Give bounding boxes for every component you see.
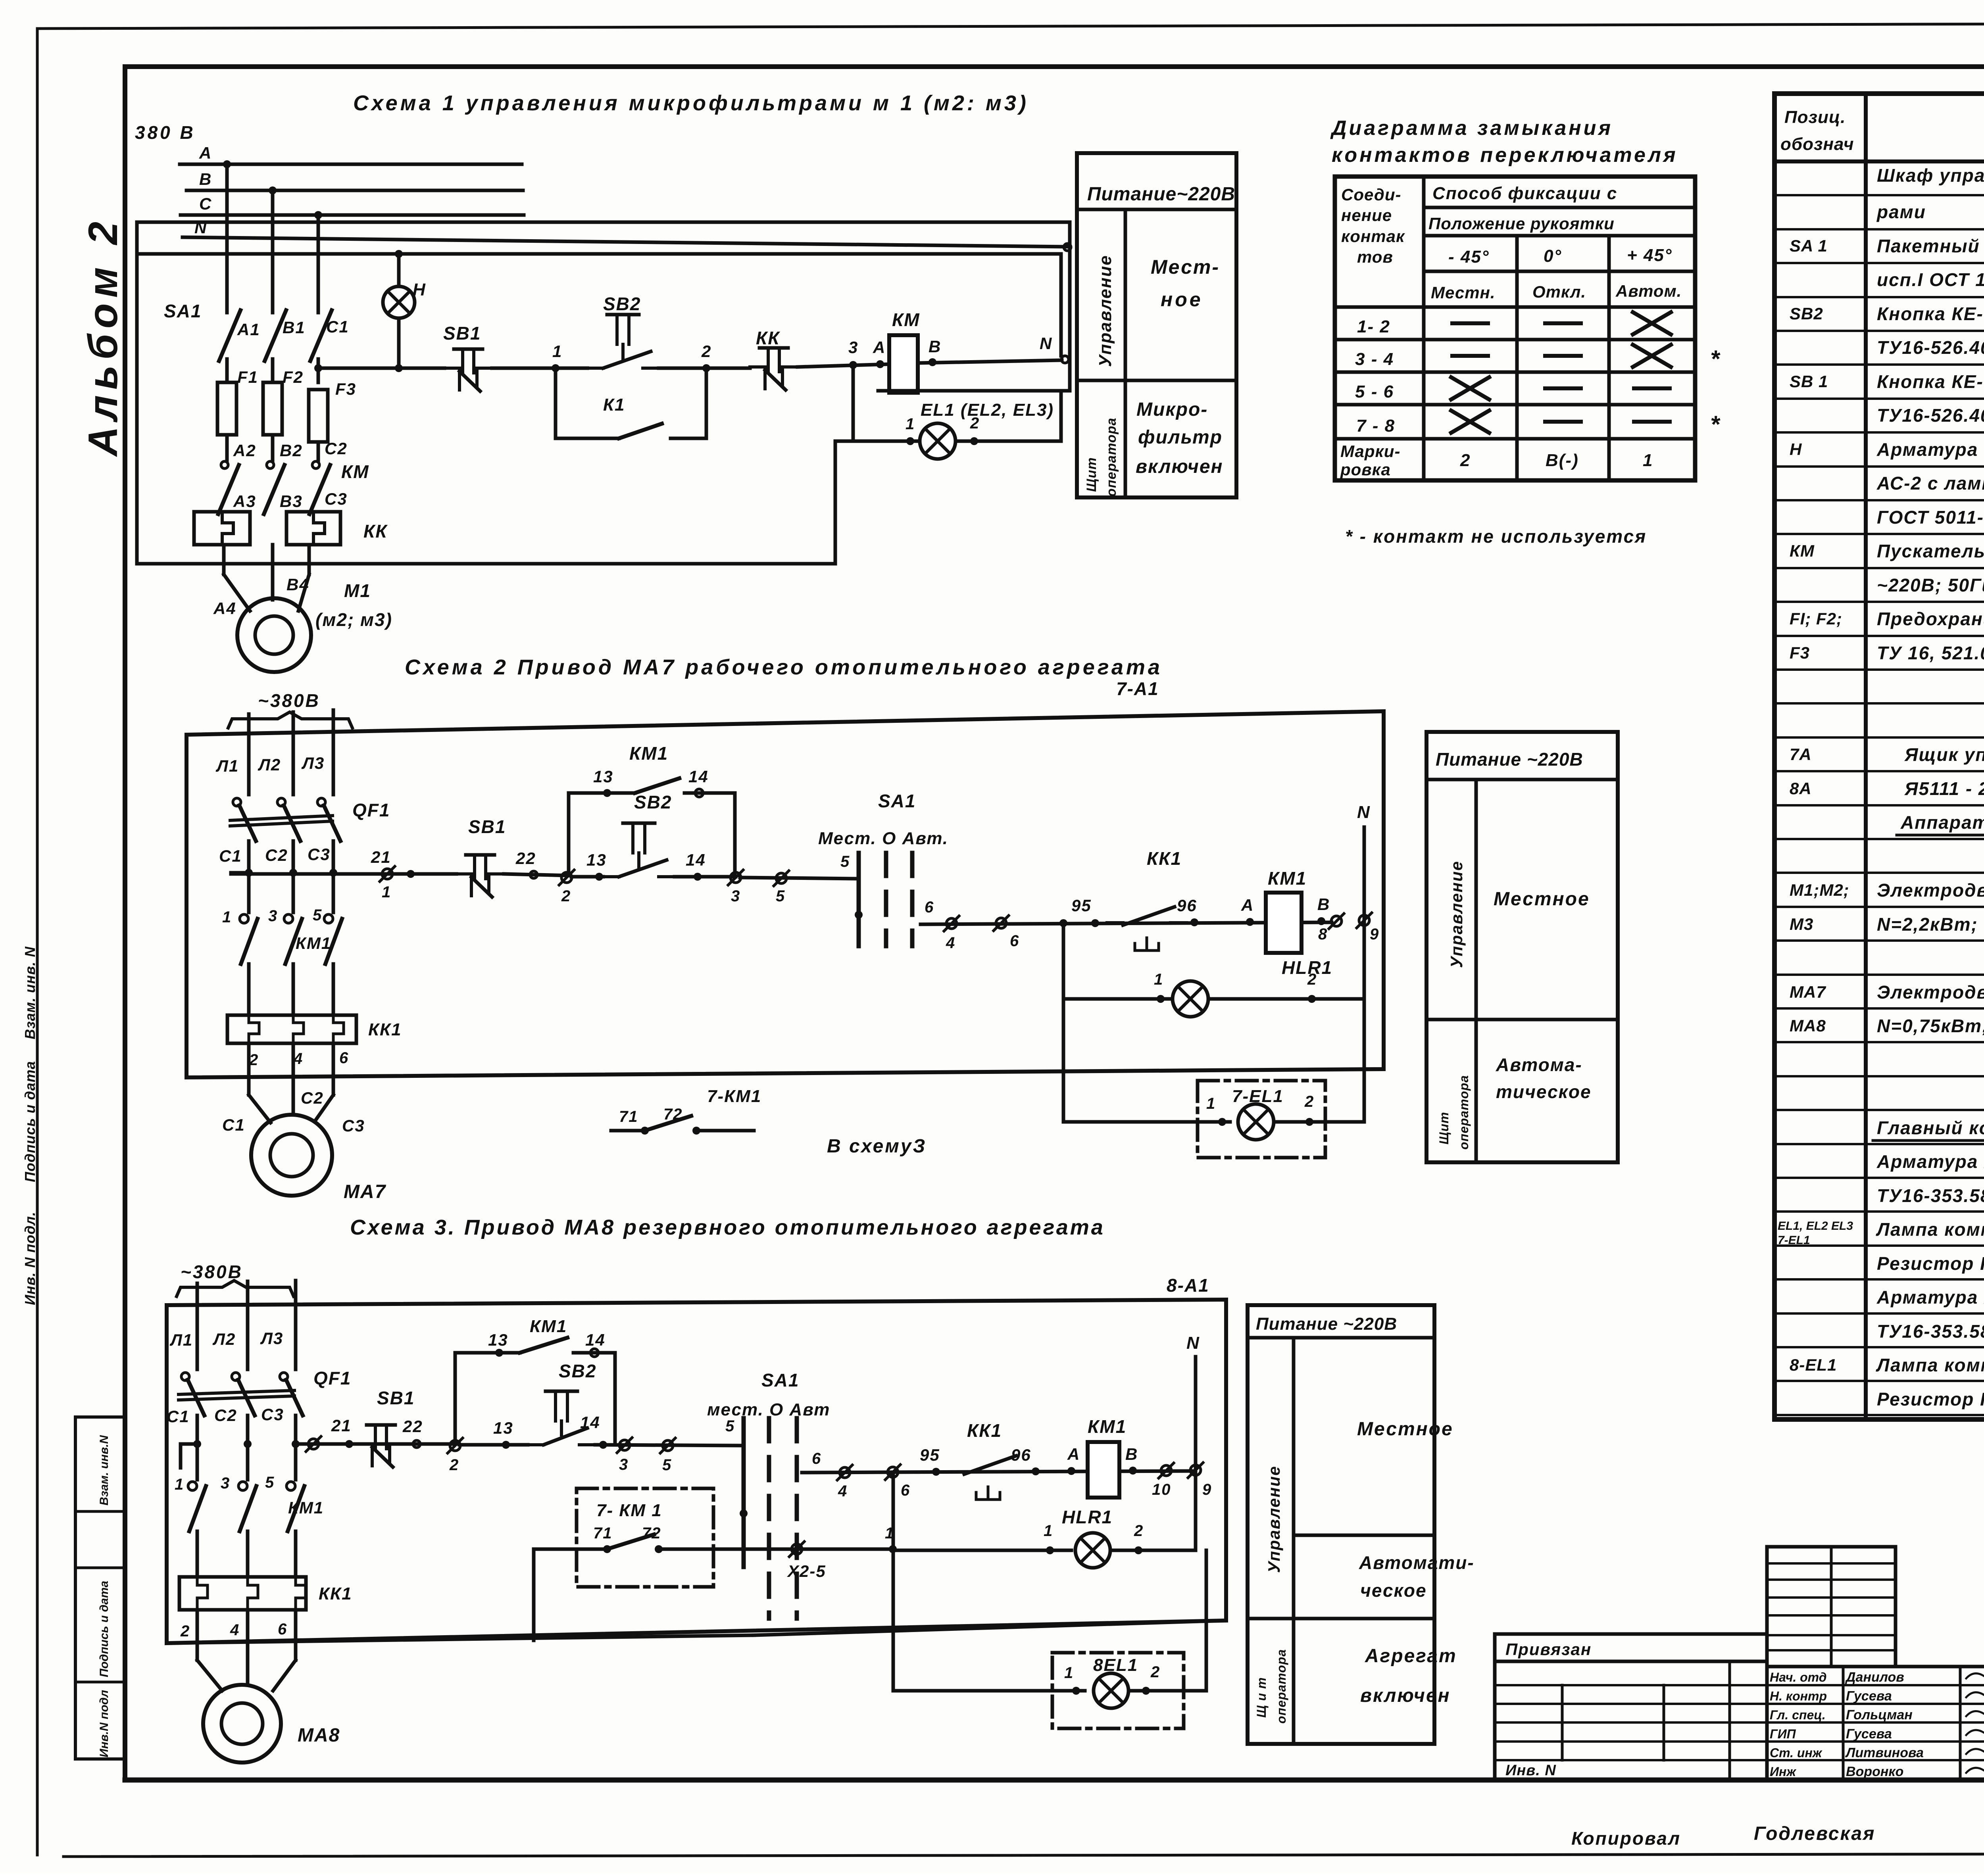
sheet bottom edge — [63, 1853, 1984, 1857]
svg-text:Электродвигатель 4АХ71А2: Электродвигатель 4АХ71А2 — [1877, 982, 1984, 1002]
svg-text:В3: В3 — [280, 492, 303, 511]
wire K1 branch left — [554, 368, 558, 438]
wire EL down to return — [834, 441, 837, 564]
wire qf to row s2 — [247, 841, 251, 873]
svg-text:Автом.: Автом. — [1615, 282, 1682, 300]
wire L3 stub — [332, 710, 335, 795]
wire motor tap3 diag s2 — [315, 1095, 333, 1121]
signature table — [1767, 1667, 1984, 1780]
svg-text:М3: М3 — [1790, 915, 1813, 933]
motor MA7 — [251, 1115, 332, 1196]
stamp divider 3 — [75, 1681, 125, 1684]
svg-text:4: 4 — [230, 1621, 240, 1639]
wire to SA1 s2 — [740, 878, 859, 879]
svg-text:7-КМ1: 7-КМ1 — [707, 1087, 761, 1106]
svg-text:А4: А4 — [213, 599, 236, 618]
svg-text:N: N — [1040, 334, 1052, 353]
frame left — [123, 67, 127, 1780]
svg-text:Ящик управления: Ящик управления — [1904, 744, 1984, 765]
svg-text:7-А1: 7-А1 — [1116, 678, 1159, 699]
svg-text:N: N — [194, 218, 207, 237]
svg-text:1: 1 — [1044, 1522, 1053, 1540]
contact KK1 NC schema3 — [948, 1456, 1028, 1500]
svg-text:ТУ16-353.582-76 В КОМПЛЕКТЕ;: ТУ16-353.582-76 В КОМПЛЕКТЕ; — [1877, 1185, 1984, 1206]
svg-text:МА8: МА8 — [1790, 1016, 1826, 1035]
node 95 s3 — [932, 1468, 940, 1476]
wire H lamp upper — [397, 254, 401, 286]
svg-text:2: 2 — [1460, 451, 1471, 470]
wire motor tap1 diag s3 — [197, 1660, 222, 1691]
svg-text:Аппаратура по месту: Аппаратура по месту — [1900, 812, 1984, 833]
indicator 7-EL1 dashed box schema2 — [1198, 1081, 1325, 1158]
wire col to contact s3 — [246, 1444, 250, 1480]
power table schema2 — [1426, 732, 1618, 1162]
wire L1 stub — [247, 714, 251, 795]
svg-text:КМ: КМ — [1790, 541, 1815, 560]
svg-text:МА7: МА7 — [1790, 983, 1826, 1001]
selector SA1 schema2 — [857, 853, 861, 946]
wire phase col 1 to fuse — [225, 359, 229, 382]
node 1 auto s3 — [889, 1545, 897, 1553]
contact K1 blade — [619, 424, 662, 438]
svg-text:В2: В2 — [280, 441, 303, 460]
svg-text:1: 1 — [552, 342, 562, 361]
svg-text:Литвинова: Литвинова — [1845, 1745, 1924, 1760]
svg-text:5: 5 — [313, 906, 322, 924]
bus C — [181, 213, 524, 217]
wire K1 branch bottom-right — [671, 437, 706, 440]
svg-text:КМ1: КМ1 — [530, 1317, 567, 1336]
node B s2 — [1317, 917, 1325, 925]
svg-text:Л1: Л1 — [215, 757, 239, 775]
svg-text:0°: 0° — [1544, 246, 1562, 266]
svg-text:С3: С3 — [325, 490, 348, 508]
left table div3 — [1728, 1661, 1731, 1780]
wire motor tap1 s3 — [196, 1610, 199, 1660]
wire bypass right s3 — [613, 1353, 617, 1445]
svg-text:КК1: КК1 — [1147, 848, 1182, 869]
svg-text:SB1: SB1 — [443, 323, 481, 344]
node bus junction 1 — [223, 160, 231, 168]
wire K1 branch right — [705, 368, 708, 438]
wire control row seg3 — [659, 367, 750, 370]
breaker QF1 bar line2 — [230, 821, 333, 826]
svg-text:2: 2 — [701, 342, 711, 361]
svg-text:SA1: SA1 — [761, 1370, 799, 1390]
node A s2 — [1246, 918, 1254, 926]
wire motor tap1 diag s2 — [249, 1095, 271, 1123]
svg-text:8: 8 — [1318, 926, 1328, 943]
svg-text:1: 1 — [175, 1476, 184, 1493]
svg-text:Местное: Местное — [1357, 1419, 1453, 1440]
svg-text:нение: нение — [1341, 206, 1392, 225]
svg-text:Мест-: Мест- — [1151, 256, 1220, 278]
wire HLR drop s3 — [892, 1472, 895, 1691]
svg-text:* - контакт не используетс: * - контакт не используется — [1345, 526, 1647, 547]
svg-text:КМ1: КМ1 — [296, 934, 331, 952]
wire col to contact s3 — [196, 1444, 199, 1480]
svg-text:5: 5 — [662, 1456, 672, 1474]
wire HLR row left s2 — [1063, 997, 1171, 1001]
terminal 22 s3 — [413, 1440, 420, 1448]
node 3 slashed s2 — [728, 870, 743, 885]
wire motor tap2 s3 — [246, 1610, 250, 1685]
svg-text:обознач: обознач — [1780, 134, 1854, 154]
svg-text:7- КМ 1: 7- КМ 1 — [596, 1501, 662, 1520]
wire EL row right — [955, 440, 1061, 443]
svg-text:Л3: Л3 — [301, 754, 325, 772]
svg-text:14: 14 — [688, 767, 709, 786]
node 2 slashed s2 — [559, 870, 574, 885]
node row cross s3 — [193, 1440, 201, 1448]
wire control row seg2 — [492, 367, 587, 370]
svg-text:КК: КК — [756, 328, 780, 348]
lamp EL1 — [920, 423, 955, 459]
svg-text:Н. контр: Н. контр — [1770, 1689, 1827, 1703]
node row cross s3 — [292, 1440, 300, 1448]
svg-text:~380В: ~380В — [181, 1262, 243, 1282]
svg-text:14: 14 — [686, 851, 706, 869]
svg-text:рами: рами — [1876, 202, 1926, 222]
svg-text:КК: КК — [363, 521, 388, 541]
wire ctrl row s2 seg2 — [504, 874, 569, 876]
svg-text:исп.I ОСТ 16. 0526. 001-77: исп.I ОСТ 16. 0526. 001-77 — [1877, 269, 1984, 290]
svg-text:2: 2 — [1134, 1522, 1144, 1540]
wire box down to return s3 — [532, 1549, 536, 1640]
wire bypass right down s2 — [733, 793, 737, 877]
wire s3 seg3 — [595, 1445, 744, 1446]
svg-text:ТУ16-353.582-76 В КОМПЛЕКТЕ;: ТУ16-353.582-76 В КОМПЛЕКТЕ; — [1877, 1321, 1984, 1342]
svg-text:Пакетный выключатель АВ3-10: Пакетный выключатель АВ3-10 — [1877, 236, 1984, 256]
svg-text:ное: ное — [1161, 288, 1203, 311]
wire EL row s2 left — [1063, 1120, 1230, 1124]
wire s3 seg1 — [405, 1442, 455, 1446]
svg-text:Л2: Л2 — [258, 755, 281, 774]
lamp HLR1 schema3 — [1075, 1533, 1110, 1568]
terminal 14 aux s2 — [695, 789, 703, 797]
svg-text:В схемуЗ: В схемуЗ — [827, 1136, 927, 1157]
contact 7-KM1 aux (to schema 3) — [611, 1129, 645, 1133]
wire HLR row s3 left — [893, 1549, 1071, 1552]
contactor KM main blade — [310, 465, 330, 514]
svg-text:Соеди-: Соеди- — [1341, 185, 1401, 204]
sheet left edge — [36, 30, 39, 1855]
stamp divider 2 — [75, 1567, 125, 1569]
svg-text:А: А — [1067, 1445, 1080, 1463]
svg-text:ТУ16-526.407-76Е: ТУ16-526.407-76Е — [1877, 337, 1984, 358]
svg-text:380 В: 380 В — [135, 122, 196, 143]
svg-text:М1: М1 — [344, 580, 371, 601]
wire qf to row s3 — [246, 1415, 250, 1444]
node X2-5 s3 — [789, 1542, 804, 1557]
svg-text:Питание ~220В: Питание ~220В — [1436, 749, 1583, 770]
node A dot schema1 — [876, 360, 884, 368]
node 5 slashed s3 — [660, 1438, 675, 1453]
specification table — [1774, 94, 1984, 1419]
wire motor tap A — [222, 545, 226, 574]
node 1 slashed s2 — [380, 866, 395, 881]
wire below F2 — [271, 435, 275, 460]
wire N feeder — [137, 252, 1061, 256]
svg-text:Местное: Местное — [1494, 889, 1590, 910]
svg-text:Резистор ПЭВ-25: Резистор ПЭВ-25 — [1877, 1389, 1984, 1409]
svg-text:SB2: SB2 — [559, 1361, 596, 1381]
enclosure box 7-A1 — [186, 711, 1384, 1077]
button SB2 schema2 — [603, 823, 675, 877]
wire motor tap3 s2 — [332, 1043, 335, 1095]
svg-text:7А: 7А — [1790, 745, 1812, 764]
motor M1 — [237, 598, 311, 672]
svg-text:72: 72 — [663, 1106, 683, 1123]
lamp 7-EL1 schema2 — [1238, 1104, 1274, 1140]
contactor coil KM — [889, 335, 918, 393]
svg-text:КМ1: КМ1 — [1268, 868, 1307, 889]
svg-text:(м2; м3): (м2; м3) — [315, 609, 392, 630]
sheet top edge — [37, 23, 1984, 29]
wire into box s3 — [534, 1548, 577, 1551]
wire EL up right — [1059, 391, 1063, 441]
wire H lamp lower — [397, 318, 401, 368]
stamp divider 1 — [75, 1510, 125, 1513]
wire phase col 3 upper — [317, 215, 320, 313]
svg-text:ческое: ческое — [1360, 1580, 1427, 1601]
contact closure diagram table — [1330, 117, 1721, 547]
svg-text:HLR1: HLR1 — [1282, 957, 1332, 978]
fuse F3 — [309, 390, 328, 442]
svg-text:тов: тов — [1357, 248, 1393, 266]
contact KK1 NC schema2 — [1107, 907, 1186, 950]
svg-text:ГИП: ГИП — [1770, 1727, 1796, 1741]
svg-text:2: 2 — [561, 887, 571, 905]
fuse F2 — [263, 382, 282, 435]
node 3 slashed s3 — [617, 1438, 632, 1453]
svg-text:АС-2 с лампой ПШ-220-15: АС-2 с лампой ПШ-220-15 — [1876, 473, 1984, 493]
svg-text:Л1: Л1 — [169, 1331, 193, 1349]
wire HLR row right s2 — [1208, 997, 1364, 1001]
svg-text:Годлевская: Годлевская — [1754, 1823, 1875, 1844]
node 9 slashed s3 — [1188, 1463, 1203, 1478]
svg-text:1: 1 — [1154, 971, 1163, 988]
svg-text:Подпись и дата: Подпись и дата — [22, 1061, 38, 1182]
wire col down to KM1 contact s2 — [247, 873, 251, 912]
wire phase col 2 upper — [271, 190, 275, 313]
node row cross s3 — [244, 1440, 252, 1448]
wire phase col 2 to fuse — [271, 359, 275, 382]
svg-text:SB 1: SB 1 — [1790, 372, 1828, 391]
svg-text:Инв. N: Инв. N — [1505, 1762, 1556, 1779]
node B dot schema1 — [929, 358, 936, 366]
svg-text:Я5111 - 2474 УХЛ4: Я5111 - 2474 УХЛ4 — [1904, 778, 1984, 799]
svg-text:SA1: SA1 — [164, 301, 202, 321]
svg-text:Откл.: Откл. — [1532, 282, 1586, 301]
svg-text:оператора: оператора — [1104, 418, 1119, 497]
breaker bar1 s3 — [179, 1390, 294, 1394]
svg-text:8А: 8А — [1790, 779, 1812, 798]
node EL 2 s3 — [1142, 1687, 1150, 1695]
wire col down to KM1 contact s2 — [292, 873, 295, 912]
svg-text:Управление: Управление — [1265, 1465, 1283, 1573]
button SB1 schema3 — [357, 1425, 405, 1467]
node HLR 1 s2 — [1157, 995, 1165, 1003]
svg-text:Лампа коммутаторная КМ24-90: Лампа коммутаторная КМ24-90 — [1876, 1219, 1984, 1240]
svg-text:~380В: ~380В — [258, 690, 320, 711]
svg-text:7-EL1: 7-EL1 — [1232, 1087, 1284, 1106]
svg-text:SB2: SB2 — [603, 294, 641, 314]
svg-text:Альбом 2: Альбом 2 — [80, 216, 126, 457]
svg-text:6: 6 — [925, 899, 934, 916]
svg-text:Н: Н — [1790, 440, 1802, 459]
svg-text:Местн.: Местн. — [1431, 283, 1496, 302]
svg-text:Гольцман: Гольцман — [1846, 1707, 1913, 1722]
wire N return bottom — [137, 562, 835, 566]
svg-text:8EL1: 8EL1 — [1093, 1655, 1138, 1675]
svg-text:9: 9 — [1370, 926, 1379, 943]
wire EL row s3 right — [1128, 1689, 1206, 1693]
wire EL right up s3 — [1205, 1550, 1208, 1691]
thermal relay KK heater 1 — [194, 512, 250, 545]
svg-text:SB2: SB2 — [634, 792, 672, 812]
svg-text:А1: А1 — [237, 320, 260, 339]
node 6 slashed s3 — [885, 1465, 900, 1480]
node row crossing s2 — [329, 869, 337, 877]
svg-text:КМ: КМ — [341, 461, 369, 482]
svg-text:В: В — [1125, 1445, 1138, 1463]
contact KK NC schema1 — [750, 348, 798, 390]
wire return bottom right s3 — [754, 1621, 1226, 1635]
svg-text:ГОСТ 5011-77: ГОСТ 5011-77 — [1877, 507, 1984, 528]
svg-text:КМ1: КМ1 — [629, 743, 668, 764]
wire motor tap3 s3 — [294, 1610, 298, 1660]
node 21 dot s3 — [345, 1440, 353, 1448]
svg-text:В(-): В(-) — [1546, 451, 1579, 470]
wire below F3 — [317, 442, 320, 460]
wire control row seg1 — [318, 367, 444, 370]
svg-text:Арматура светосигнальная: Арматура светосигнальная — [1876, 439, 1984, 460]
svg-text:10: 10 — [1152, 1481, 1171, 1498]
svg-text:В: В — [1317, 895, 1330, 914]
wire L2 stub — [292, 712, 295, 795]
svg-text:14: 14 — [580, 1413, 600, 1432]
wire EL row s2 right — [1274, 1120, 1364, 1124]
svg-text:включен: включен — [1136, 456, 1223, 477]
svg-text:7-EL1: 7-EL1 — [1778, 1234, 1810, 1247]
svg-text:МА7: МА7 — [344, 1181, 386, 1202]
svg-text:В: В — [929, 337, 941, 356]
breaker QF1 schema2 — [233, 798, 241, 806]
svg-text:71: 71 — [619, 1108, 638, 1125]
node 9 slashed s2 — [1357, 913, 1372, 928]
svg-text:Данилов: Данилов — [1845, 1670, 1904, 1685]
svg-text:F2: F2 — [283, 368, 304, 386]
svg-text:Схема 1 управления микрофи: Схема 1 управления микрофильтрами м 1 (м… — [353, 91, 1029, 115]
svg-text:С1: С1 — [326, 317, 349, 336]
wire after SB2 s2 — [675, 875, 736, 879]
stamp column box — [75, 1417, 125, 1759]
node HLR 2 s3 — [1134, 1546, 1142, 1554]
wire N riser s2 — [1363, 827, 1366, 920]
svg-text:Микро-: Микро- — [1136, 399, 1208, 420]
blade 7-KM1 s3 — [607, 1534, 654, 1549]
svg-text:3: 3 — [848, 338, 858, 357]
svg-text:С3: С3 — [308, 845, 331, 864]
svg-text:Л2: Л2 — [212, 1330, 236, 1348]
wire motor tap C diag — [298, 574, 309, 611]
svg-text:QF1: QF1 — [352, 800, 390, 820]
left table div1 — [1561, 1685, 1564, 1760]
svg-text:3 - 4: 3 - 4 — [1355, 349, 1394, 369]
svg-text:6: 6 — [1010, 932, 1019, 950]
svg-text:Х2-5: Х2-5 — [787, 1562, 826, 1580]
wire motor tap1 s2 — [247, 1043, 251, 1095]
wire EL right up s2 — [1363, 999, 1366, 1122]
svg-text:1: 1 — [1206, 1095, 1216, 1112]
lamp H — [383, 286, 415, 318]
node 96 s3 — [1032, 1467, 1040, 1475]
svg-text:оператора: оператора — [1274, 1649, 1288, 1724]
wire N drop to coil — [1059, 254, 1063, 356]
svg-text:тическое: тическое — [1496, 1081, 1592, 1102]
svg-text:2: 2 — [1304, 1093, 1314, 1110]
svg-text:72: 72 — [642, 1525, 661, 1542]
svg-text:4: 4 — [838, 1482, 848, 1500]
node 21 s2 — [407, 870, 415, 878]
wire motor tap2 s2 — [292, 1043, 295, 1114]
svg-text:5: 5 — [265, 1474, 275, 1491]
wire HLR right up s2 — [1363, 920, 1366, 999]
left empty table — [1495, 1661, 1767, 1780]
thermal relay KK1 heaters schema2 — [227, 1015, 356, 1043]
svg-text:Управление: Управление — [1447, 860, 1466, 968]
svg-text:+ 45°: + 45° — [1627, 246, 1672, 265]
wire N riser s3 — [1194, 1357, 1198, 1470]
bus B — [186, 189, 523, 192]
svg-text:Электродвигатель 4А100L6УЗ: Электродвигатель 4А100L6УЗ — [1877, 880, 1984, 901]
contact KM jaw — [312, 461, 319, 469]
svg-text:3: 3 — [268, 907, 278, 925]
svg-text:1: 1 — [222, 908, 232, 926]
svg-text:2: 2 — [1150, 1663, 1160, 1681]
svg-text:Инж: Инж — [1770, 1765, 1796, 1779]
node 13 row s2 — [595, 873, 603, 881]
svg-text:5: 5 — [776, 887, 785, 905]
node 8 slashed s2 — [1329, 914, 1344, 929]
svg-text:Гусева: Гусева — [1846, 1689, 1892, 1704]
bus A — [180, 163, 522, 166]
wire ctrl row2 s2 — [921, 922, 1332, 924]
svg-text:14: 14 — [585, 1331, 606, 1349]
svg-text:~220В; 50Гц J=6.3А ГОСТ2491-7: ~220В; 50Гц J=6.3А ГОСТ2491-72 — [1877, 575, 1984, 595]
wire EL row s3 left — [893, 1689, 1085, 1693]
svg-text:Резистор ПЭВ-25: Резистор ПЭВ-25 — [1877, 1253, 1984, 1274]
node EL 2 — [970, 437, 978, 445]
brace schema3 — [177, 1281, 294, 1296]
svg-text:Схема 3. Привод МА8 резервно: Схема 3. Привод МА8 резервного отопитель… — [350, 1215, 1105, 1239]
wire 71 stub s3 — [577, 1548, 607, 1551]
contact KM1 aux bypass schema3 — [454, 1353, 457, 1444]
wire row start s3 — [181, 1442, 197, 1446]
wire HLR right connect s3 — [1194, 1470, 1198, 1550]
svg-text:КК1: КК1 — [368, 1020, 402, 1039]
wire ctrl row2 s3 — [802, 1471, 1196, 1473]
svg-text:Инв.N подл: Инв.N подл — [98, 1690, 111, 1757]
node F3 tap — [314, 364, 322, 372]
node 95 s2 — [1091, 919, 1099, 927]
svg-text:N: N — [1357, 803, 1371, 822]
svg-text:FI; F2;: FI; F2; — [1790, 609, 1842, 628]
svg-text:контактов переключателя: контактов переключателя — [1332, 144, 1678, 167]
breaker QF1 schema3 — [181, 1373, 189, 1381]
svg-text:оператора: оператора — [1457, 1075, 1471, 1150]
